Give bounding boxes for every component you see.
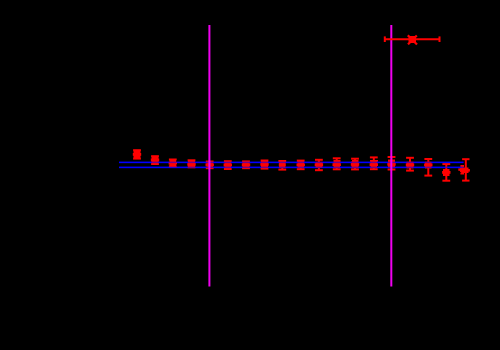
data point 8 with x/y error bars (261, 161, 269, 169)
data point 16 with x/y error bars (406, 158, 414, 171)
fit band lower line (blue, under points) (119, 166, 464, 168)
data point 12 with x/y error bars (333, 158, 341, 169)
data point 14 with x/y error bars (370, 157, 378, 169)
fit range marker line 1 (vertical magenta) (208, 25, 210, 287)
data point 7 with x/y error bars (242, 161, 250, 168)
data point 19 (small, end cluster) (459, 166, 465, 174)
data point 17 with x/y error bars (424, 159, 432, 176)
fit range marker line 2 (vertical magenta) (390, 25, 392, 287)
data point 18 with x/y error bars (442, 164, 450, 181)
data point 1 with x/y error bars (133, 150, 141, 158)
data point 15 with x/y error bars (388, 157, 396, 170)
data point 3 with x/y error bars (169, 160, 177, 167)
data point 13 with x/y error bars (351, 159, 359, 170)
data point 10 with x/y error bars (297, 161, 305, 170)
data point 6 with x/y error bars (224, 161, 232, 169)
fit band lower line (blue overlay blend) (119, 166, 464, 168)
data point 11 with x/y error bars (315, 160, 323, 170)
fit band upper line (blue overlay blend) (119, 161, 464, 163)
data point 20 (tall error bar, end cluster) (462, 159, 469, 180)
data point 4 with x/y error bars (188, 160, 196, 168)
fit band upper line (blue, under points) (119, 161, 464, 163)
data point 5 with x/y error bars (206, 161, 214, 168)
data point 2 with x/y error bars (151, 156, 159, 164)
fitted result point with horizontal error bar (top right) (385, 35, 440, 44)
data point 9 with x/y error bars (278, 161, 286, 170)
